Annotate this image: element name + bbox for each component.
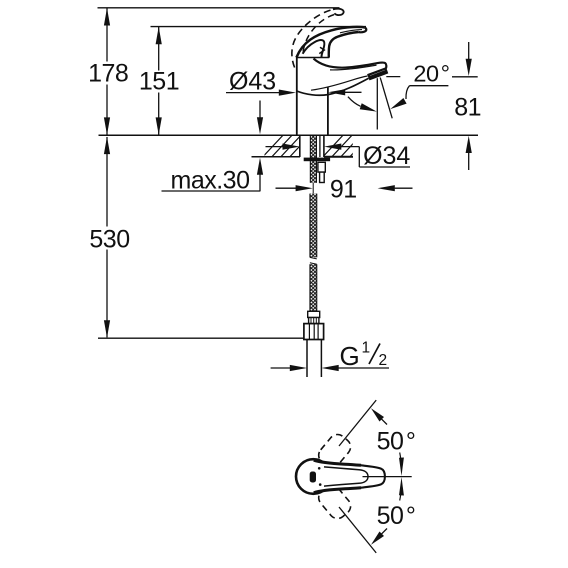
dimension G 1/2 (271, 340, 389, 372)
handle underside and return leg (329, 32, 359, 58)
faucet body left edge (296, 58, 298, 136)
dimension Ø43 (226, 67, 362, 95)
center line (363, 476, 412, 478)
wire: countertop deck top line (99, 134, 479, 136)
wire: 151 reference line (151, 26, 367, 28)
svg-text:G: G (340, 341, 360, 371)
dimension Ø34 (266, 142, 411, 170)
svg-text:Ø34: Ø34 (363, 142, 410, 170)
dashed chevron (319, 47, 324, 53)
lower leader arrow (371, 529, 387, 545)
handle loop outer edge (296, 27, 364, 58)
dimension 91 (276, 176, 413, 204)
lever bold top edge (314, 460, 361, 465)
shank right wall (323, 135, 325, 157)
lever bold bottom edge (314, 488, 361, 493)
dimension 151 (139, 27, 179, 135)
dashed rotated tip lower (315, 482, 354, 522)
knob dot upper (318, 467, 321, 470)
dashed raised handle tip (333, 9, 344, 15)
flexible hose lower segment (310, 264, 317, 311)
upper 50 degree line (339, 400, 376, 446)
dashed rotated tip upper (315, 431, 354, 471)
hose end collar (308, 311, 320, 317)
hose crimp section (309, 318, 319, 324)
upper leader arrow (371, 408, 387, 424)
handle tip curl (359, 27, 367, 32)
spout inner top line (330, 65, 377, 70)
knob circle (296, 459, 331, 494)
hose nipple step 2 (320, 172, 325, 182)
faucet body right edge (327, 88, 329, 136)
wire: top reference line (178 level) (98, 7, 340, 9)
wire: 530 bottom reference line (98, 337, 304, 339)
outlet 20 degree slanted line (380, 78, 392, 119)
dimension 81 (386, 42, 481, 170)
knob dot lower (319, 483, 322, 486)
angle arc left with arrow (348, 97, 377, 112)
dashed raised handle outer (292, 9, 333, 67)
svg-text:91: 91 (330, 176, 357, 204)
svg-text:151: 151 (139, 67, 179, 95)
shank inner tube line (319, 135, 321, 157)
threaded stud through deck (310, 135, 316, 183)
deck hatching right (318, 132, 373, 162)
wire: deck bottom line left (252, 156, 301, 158)
handle loop hole edge (303, 40, 325, 57)
center line in gap (312, 183, 314, 193)
wire: deck bottom line right (324, 156, 353, 158)
hose nipple step 1 (318, 162, 325, 172)
flexible hose upper segment (310, 194, 317, 258)
svg-text:50°: 50° (377, 502, 416, 530)
label 20 degrees (390, 60, 449, 109)
dimension 530 (89, 137, 129, 338)
spout underside inner line (311, 76, 368, 90)
svg-text:81: 81 (454, 94, 481, 122)
knob dark mark (310, 472, 316, 483)
mounting flange under deck (304, 158, 330, 162)
spout underside line (297, 78, 369, 95)
svg-text:20°: 20° (413, 60, 449, 86)
dimension 178 (88, 8, 128, 135)
lever inner slot outline (324, 467, 368, 486)
dimension max.30 (162, 101, 264, 195)
svg-text:2: 2 (379, 352, 388, 369)
hose break marks (310, 257, 317, 264)
upper center arrow (399, 453, 404, 477)
svg-text:max.30: max.30 (171, 166, 250, 194)
svg-text:530: 530 (89, 225, 129, 253)
lever outline (314, 460, 385, 493)
svg-text:178: 178 (88, 60, 128, 88)
aerator (369, 69, 387, 80)
deck hatching left (258, 132, 322, 162)
svg-text:50°: 50° (377, 428, 416, 456)
outlet vertical line (376, 78, 378, 129)
faucet body top line (296, 57, 329, 59)
handle accent line near tip (340, 30, 362, 33)
spout top edge (314, 59, 387, 69)
lower 50 degree line (339, 507, 376, 553)
lower center arrow (399, 477, 404, 501)
svg-text:Ø43: Ø43 (229, 67, 276, 95)
connection pipe G1/2 (307, 340, 321, 378)
svg-text:1: 1 (362, 340, 371, 357)
dashed raised handle inner (303, 15, 334, 53)
shank left wall (299, 135, 301, 157)
hex nut (304, 324, 324, 340)
